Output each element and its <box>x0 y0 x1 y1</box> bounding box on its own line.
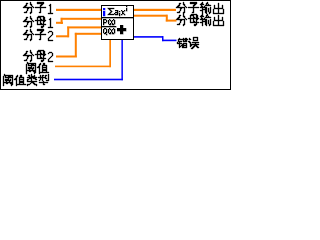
wire 分子1 input <box>56 9 101 11</box>
node yuzhi label <box>26 62 49 74</box>
wire 阈值 input <box>55 40 111 67</box>
node fenzi2 label <box>23 29 53 41</box>
node fenmu2 label <box>23 50 53 62</box>
icon fraction bar <box>102 26 116 27</box>
icon text: blue i <box>103 8 105 16</box>
wire 错误 output <box>134 36 177 41</box>
icon text: sigma a_i x^i <box>109 6 127 16</box>
wire 分母输出 output <box>134 15 177 22</box>
wire 分母1 input <box>56 18 101 24</box>
wire 分子2 input <box>56 26 101 37</box>
border frame <box>1 1 231 90</box>
wire 分母2 input <box>56 33 101 58</box>
node fenmu1 label <box>23 16 53 28</box>
icon plus sign <box>117 25 126 34</box>
wire 阈值类型 input <box>54 40 123 80</box>
icon text: P(x) <box>103 19 115 25</box>
node yuzhileixing label <box>3 74 49 86</box>
wire 分子输出 output <box>134 9 176 11</box>
node cuowu label <box>177 37 199 49</box>
node fenmu-out label <box>176 14 224 26</box>
node fenzi1 label <box>23 2 53 14</box>
icon text: Q(x) <box>103 28 115 35</box>
op icon U1: add rational polynomials VI <box>102 6 134 40</box>
node fenzi-out label <box>176 2 224 14</box>
